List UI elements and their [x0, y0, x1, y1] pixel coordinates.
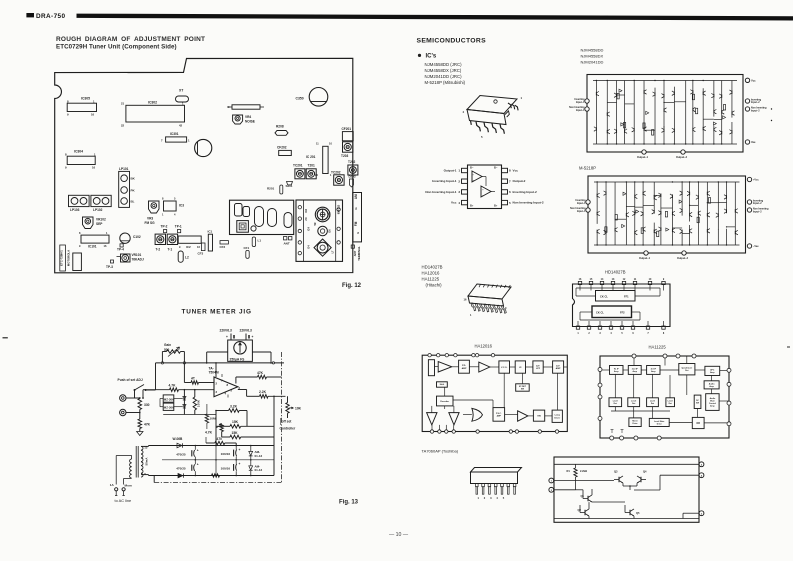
svg-text:HA12016: HA12016: [422, 271, 441, 276]
svg-text:IC2: IC2: [186, 245, 191, 249]
svg-text:7504M: 7504M: [209, 371, 219, 375]
svg-text:+: +: [197, 463, 199, 467]
svg-text:4.7K: 4.7K: [205, 430, 213, 434]
svg-text:5R: 5R: [314, 222, 317, 225]
svg-text:(Hitachi): (Hitachi): [426, 283, 443, 288]
svg-text:SW: SW: [696, 403, 699, 405]
svg-text:IC302: IC302: [148, 101, 157, 105]
svg-text:10K: 10K: [295, 406, 302, 410]
svg-text:Gain: Gain: [164, 343, 171, 347]
svg-text:Output−1: Output−1: [637, 156, 649, 159]
svg-text:CF3: CF3: [198, 251, 204, 255]
svg-text:Driver: Driver: [554, 417, 560, 419]
svg-text:TUNER METER JIG: TUNER METER JIG: [182, 309, 252, 316]
svg-text:+: +: [473, 178, 475, 182]
svg-text:TP-3: TP-3: [106, 265, 113, 269]
svg-text:47K: 47K: [257, 371, 264, 375]
svg-text:NJM4558DD (JRC): NJM4558DD (JRC): [425, 62, 463, 67]
svg-text:IC1: IC1: [208, 230, 213, 234]
svg-text:76KADJ: 76KADJ: [132, 258, 144, 262]
svg-text:CK CL: CK CL: [600, 295, 608, 299]
svg-text:100/16: 100/16: [221, 452, 231, 456]
svg-text:470: 470: [217, 437, 223, 441]
svg-text:Output-1: Output-1: [444, 169, 457, 173]
svg-text:ROUGH DIAGRAM OF ADJUSTMENT PO: ROUGH DIAGRAM OF ADJUSTMENT POINT: [56, 36, 205, 43]
svg-text:NJM2041DD (JRC): NJM2041DD (JRC): [425, 74, 463, 79]
svg-text:Inverting Input-1: Inverting Input-1: [432, 179, 457, 183]
svg-text:LPF: LPF: [536, 368, 541, 370]
svg-text:off set: off set: [282, 420, 293, 424]
svg-text:+: +: [239, 462, 241, 466]
svg-text:L1: L1: [258, 238, 262, 242]
svg-text:AMP: AMP: [462, 367, 467, 370]
svg-text:+: +: [252, 335, 254, 339]
svg-text:50mA: 50mA: [145, 457, 149, 466]
svg-text:Amp: Amp: [651, 370, 656, 373]
svg-text:Vee: Vee: [751, 140, 756, 144]
svg-text:Audio: Audio: [710, 397, 716, 400]
svg-text:P.D.: P.D.: [462, 365, 466, 367]
svg-text:+: +: [197, 448, 199, 452]
svg-text:LP102: LP102: [93, 208, 103, 212]
svg-text:HA11225: HA11225: [649, 345, 667, 350]
svg-text:100K: 100K: [196, 399, 200, 407]
svg-text:Push of set ADJ: Push of set ADJ: [118, 378, 143, 382]
svg-text:Amp: Amp: [709, 385, 714, 388]
svg-text:Output-2: Output-2: [513, 179, 526, 183]
svg-text:TA7060AP (Toshiba): TA7060AP (Toshiba): [422, 449, 459, 454]
svg-text:L2: L2: [185, 255, 189, 259]
svg-text:T-2: T-2: [156, 248, 161, 252]
svg-text:NJM4558DX (JRC): NJM4558DX (JRC): [425, 68, 462, 73]
svg-text:+: +: [239, 448, 241, 452]
svg-text:Shift: Shift: [440, 383, 445, 386]
svg-text:Det: Det: [632, 402, 636, 405]
svg-text:TP-1: TP-1: [175, 224, 182, 228]
svg-text:Inverting Input-2: Inverting Input-2: [513, 190, 538, 194]
svg-text:MZ-306: MZ-306: [164, 397, 174, 401]
svg-text:IC4: IC4: [308, 226, 311, 230]
svg-text:500: 500: [164, 348, 170, 352]
svg-text:Output−1: Output−1: [639, 257, 651, 260]
svg-text:DRA-750: DRA-750: [36, 13, 65, 20]
svg-text:IC 201: IC 201: [306, 155, 316, 159]
svg-text:42: 42: [179, 124, 183, 128]
svg-text:Quadrature: Quadrature: [681, 367, 693, 370]
svg-text:LP101: LP101: [119, 167, 129, 171]
svg-text:Q4: Q4: [643, 470, 647, 474]
svg-text:SEMICONDUCTORS: SEMICONDUCTORS: [417, 38, 487, 45]
svg-text:2.2K: 2.2K: [259, 390, 267, 394]
svg-text:Non Inverting Input-1: Non Inverting Input-1: [425, 190, 456, 194]
svg-text:TC201: TC201: [293, 163, 303, 167]
svg-text:15K: 15K: [232, 431, 239, 435]
svg-text:ANT: ANT: [284, 242, 290, 246]
svg-text:TERMINAL: TERMINAL: [357, 246, 361, 261]
svg-text:330: 330: [144, 403, 150, 407]
svg-text:Q2: Q2: [578, 508, 582, 512]
svg-text:220V6.3: 220V6.3: [220, 329, 232, 333]
svg-text:IO2: IO2: [305, 208, 308, 213]
svg-text:Non Inverting Input-2: Non Inverting Input-2: [513, 201, 544, 205]
svg-text:22: 22: [121, 124, 125, 128]
svg-text:LP103: LP103: [70, 208, 80, 212]
svg-text:ETC0729H Tuner Unit (Component: ETC0729H Tuner Unit (Component Side): [56, 44, 177, 51]
svg-text:BL: BL: [131, 199, 135, 203]
svg-text:IC305: IC305: [81, 96, 90, 100]
svg-text:T202: T202: [348, 160, 355, 164]
svg-text:T201: T201: [308, 163, 315, 167]
svg-text:Fig. 13: Fig. 13: [339, 500, 359, 506]
svg-text:Input−2: Input−2: [751, 109, 760, 112]
svg-text:ETC-729H-1: ETC-729H-1: [60, 250, 64, 266]
svg-text:220V6.3: 220V6.3: [240, 329, 252, 333]
svg-text:AMP: AMP: [556, 367, 561, 370]
svg-text:Output−2: Output−2: [676, 156, 688, 159]
svg-text:B+: B+: [470, 203, 474, 207]
svg-text:CF201: CF201: [342, 127, 352, 131]
svg-text:Input−1: Input−1: [576, 101, 585, 104]
svg-text:Controller: Controller: [280, 427, 296, 431]
svg-text:T-1: T-1: [168, 248, 173, 252]
svg-text:−: −: [482, 188, 484, 192]
svg-text:B+: B+: [494, 203, 498, 207]
svg-text:HD14027B: HD14027B: [422, 265, 443, 270]
svg-text:AM: AM: [354, 194, 358, 199]
svg-text:16: 16: [92, 166, 96, 170]
svg-text:3.2K: 3.2K: [230, 404, 238, 408]
svg-text:FF2: FF2: [620, 310, 625, 314]
svg-text:Drive: Drive: [657, 423, 663, 425]
svg-text:M-5218P (Mitsubishi): M-5218P (Mitsubishi): [425, 80, 466, 85]
svg-text:C350: C350: [296, 97, 304, 101]
svg-text:VR4: VR4: [245, 115, 251, 119]
svg-text:15K: 15K: [232, 420, 239, 424]
svg-text:Vcc: Vcc: [513, 169, 519, 173]
svg-text:Decoder: Decoder: [440, 401, 449, 403]
svg-text:OR: OR: [696, 422, 700, 425]
svg-text:TP-2: TP-2: [161, 224, 168, 228]
svg-text:Input−2: Input−2: [751, 101, 760, 104]
svg-text:FM SG: FM SG: [145, 221, 156, 225]
svg-text:Det: Det: [685, 369, 689, 372]
svg-text:— 10 —: — 10 —: [389, 532, 409, 538]
svg-text:NJM4558DX: NJM4558DX: [581, 54, 604, 59]
svg-text:A.F.: A.F.: [556, 364, 560, 367]
svg-text:HA12016: HA12016: [475, 344, 493, 349]
svg-text:4.7K: 4.7K: [169, 384, 177, 388]
svg-text:Drive: Drive: [633, 423, 639, 425]
svg-text:R1: R1: [567, 469, 571, 473]
svg-text:16: 16: [91, 113, 95, 117]
svg-text:R208: R208: [276, 124, 284, 128]
svg-text:V.C.O.: V.C.O.: [501, 367, 508, 369]
svg-text:IC301: IC301: [170, 132, 179, 136]
svg-text:Input−1: Input−1: [577, 210, 586, 213]
svg-text:IC101: IC101: [88, 244, 97, 248]
svg-text:Audio: Audio: [709, 382, 715, 385]
svg-text:IC3: IC3: [179, 203, 184, 207]
svg-text:MOTOROLA: MOTOROLA: [67, 250, 71, 266]
svg-text:Control: Control: [709, 402, 717, 405]
svg-text:Det: Det: [651, 402, 655, 405]
svg-text:470/25: 470/25: [176, 467, 186, 471]
svg-text:01-12: 01-12: [255, 468, 263, 472]
svg-text:Q5: Q5: [636, 511, 640, 515]
svg-text:10R: 10R: [329, 212, 332, 217]
svg-text:Q3: Q3: [614, 470, 618, 474]
svg-text:Vcc: Vcc: [751, 79, 756, 83]
svg-text:AMP: AMP: [497, 414, 502, 417]
svg-text:W-06B: W-06B: [173, 437, 184, 441]
svg-text:I.F.: I.F.: [519, 367, 522, 369]
svg-text:AFC: AFC: [710, 368, 715, 371]
svg-text:HD14027B: HD14027B: [605, 270, 626, 275]
svg-text:Meter: Meter: [632, 420, 638, 423]
svg-text:2O: 2O: [305, 217, 308, 220]
svg-text:Amp: Amp: [710, 405, 715, 408]
svg-text:CK CL: CK CL: [596, 310, 604, 314]
svg-text:100/16: 100/16: [221, 466, 231, 470]
svg-text:HA11225: HA11225: [422, 277, 440, 282]
svg-text:Input−2: Input−2: [753, 202, 762, 205]
svg-text:Vcc: Vcc: [451, 201, 457, 205]
svg-text:Input−1: Input−1: [577, 202, 586, 205]
svg-text:FF1: FF1: [624, 295, 629, 299]
svg-text:10M: 10M: [210, 417, 216, 421]
svg-text:A.F.: A.F.: [536, 364, 540, 367]
svg-text:+: +: [482, 193, 484, 197]
svg-text:470/25: 470/25: [176, 452, 186, 456]
svg-text:Mom: Mom: [125, 483, 132, 487]
svg-text:NJM2041DD: NJM2041DD: [581, 60, 604, 65]
svg-text:Amp: Amp: [614, 370, 619, 373]
svg-text:CF1: CF1: [244, 246, 250, 250]
svg-text:C102: C102: [133, 235, 141, 239]
svg-text:Det: Det: [614, 402, 618, 405]
svg-text:M-5218P: M-5218P: [579, 166, 596, 171]
svg-text:VR101: VR101: [132, 253, 142, 257]
svg-text:NOISE: NOISE: [245, 119, 255, 123]
svg-text:−Vee: −Vee: [753, 245, 759, 248]
svg-text:Det: Det: [669, 402, 673, 405]
svg-text:FM: FM: [354, 221, 358, 226]
svg-text:Amp: Amp: [710, 371, 715, 374]
svg-text:+Vcc: +Vcc: [753, 179, 759, 182]
svg-text:21: 21: [121, 102, 125, 106]
svg-text:NJM4558DD: NJM4558DD: [581, 48, 604, 53]
svg-text:Input−2: Input−2: [753, 210, 762, 213]
svg-text:4T: 4T: [191, 377, 195, 381]
svg-text:01-12: 01-12: [255, 454, 263, 458]
svg-text:859-313: 859-313: [336, 204, 340, 214]
svg-text:Fig. 12: Fig. 12: [342, 283, 362, 289]
svg-text:Input−1: Input−1: [576, 109, 585, 112]
svg-text:B−: B−: [494, 166, 498, 170]
svg-text:Amp: Amp: [633, 370, 638, 373]
svg-text:Q1: Q1: [581, 494, 585, 498]
svg-text:to AC line: to AC line: [115, 498, 132, 503]
svg-text:SEP: SEP: [96, 222, 103, 226]
svg-text:G: G: [356, 232, 360, 234]
svg-text:TP-4: TP-4: [117, 247, 124, 251]
svg-text:Level Mute: Level Mute: [654, 420, 665, 423]
svg-text:B−: B−: [470, 166, 474, 170]
svg-text:MZ-306: MZ-306: [164, 406, 174, 410]
svg-text:Output−2: Output−2: [677, 257, 689, 260]
svg-text:+: +: [226, 335, 228, 339]
svg-text:T203: T203: [341, 154, 348, 158]
svg-text:R201: R201: [267, 187, 275, 191]
svg-text:250µA FS: 250µA FS: [230, 357, 246, 361]
svg-text:TC202: TC202: [331, 171, 341, 175]
svg-text:CF202: CF202: [277, 146, 287, 150]
svg-text:2.2kΩ: 2.2kΩ: [580, 469, 587, 473]
svg-text:VR102: VR102: [96, 218, 106, 222]
svg-text:IC304: IC304: [74, 150, 83, 154]
svg-text:CF2: CF2: [220, 245, 226, 249]
svg-text:47K: 47K: [144, 422, 151, 426]
svg-text:SW: SW: [521, 389, 524, 391]
svg-text:IC's: IC's: [426, 53, 437, 59]
svg-text:D202: D202: [349, 175, 357, 179]
svg-text:−: −: [473, 173, 475, 177]
